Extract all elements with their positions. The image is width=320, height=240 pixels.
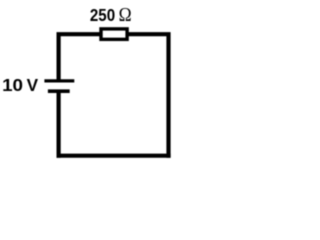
wire: left side up from battery plus plate, across top to resistor xyxy=(59,34,100,79)
svg-text:V: V xyxy=(27,75,39,95)
svg-text:10: 10 xyxy=(2,75,23,95)
resistor R (box) xyxy=(101,29,127,39)
battery V1 positive plate (long) xyxy=(44,79,74,82)
wire: bottom xyxy=(57,154,171,158)
battery V1 negative plate (short, thick) xyxy=(48,89,70,93)
wire: from resistor right edge across top, down right side xyxy=(128,34,169,158)
wire: left side down from battery minus plate xyxy=(56,93,60,158)
svg-text:250: 250 xyxy=(90,5,115,25)
svg-text:Ω: Ω xyxy=(119,4,132,26)
